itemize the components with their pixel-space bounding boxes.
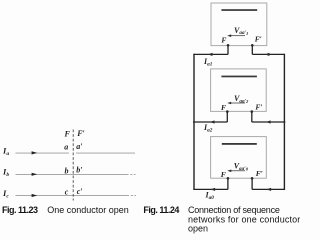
arrow row3 right	[267, 188, 272, 191]
terminal dot F' U0	[251, 177, 254, 180]
arrow Ia0	[210, 188, 215, 191]
svg-text:open: open	[188, 223, 208, 233]
arrow row1 right	[265, 53, 270, 56]
svg-text:Ia: Ia	[2, 145, 9, 157]
svg-text:c: c	[65, 188, 69, 197]
svg-text:F′: F′	[76, 129, 85, 138]
reference bus bar in U1	[221, 9, 257, 11]
svg-text:Ib: Ib	[2, 167, 9, 179]
svg-text:Ia0: Ia0	[205, 191, 215, 202]
arrow current Ib	[32, 173, 38, 176]
wire phase b	[16, 173, 129, 175]
stub wire F' U2	[251, 112, 253, 122]
right bus wire	[283, 54, 285, 190]
svg-text:F: F	[64, 130, 71, 139]
terminal dot F U2	[226, 110, 229, 113]
arrow Vaa'1 polarity	[229, 35, 245, 37]
arrow current Ic	[32, 194, 38, 197]
svg-text:F′: F′	[256, 169, 263, 178]
svg-text:Ia1: Ia1	[203, 57, 213, 68]
arrow row2 right	[266, 120, 271, 123]
wire row2 left	[193, 121, 227, 123]
stub wire F' U0	[251, 178, 253, 189]
arrow Vaa'0 polarity	[229, 170, 245, 172]
stub wire F U0	[227, 178, 229, 189]
svg-text:Fig. 11.24: Fig. 11.24	[143, 205, 179, 215]
wire phase c	[16, 195, 130, 197]
terminal dot F' U2	[251, 110, 254, 113]
wire row1 left	[193, 53, 228, 55]
svg-text:Vaa′0: Vaa′0	[234, 162, 249, 172]
terminal dot F' U1	[251, 44, 254, 47]
svg-text:F: F	[221, 36, 226, 45]
arrow Ia1	[208, 53, 213, 56]
junction left bus row2	[193, 121, 195, 123]
svg-text:Vaa′1: Vaa′1	[234, 26, 248, 36]
arrow current Ia	[32, 151, 38, 154]
wire row1 right	[252, 53, 285, 55]
stub wire F U2	[226, 112, 228, 122]
terminal dot F U0	[227, 177, 230, 180]
svg-text:a: a	[64, 142, 68, 151]
arrow Vaa'2 polarity	[229, 102, 245, 104]
sequence network box U0 (zero)	[211, 137, 267, 179]
svg-text:c′: c′	[77, 187, 83, 196]
stub wire F U1	[227, 45, 229, 54]
svg-text:Fig. 11.23: Fig. 11.23	[2, 205, 38, 215]
wire row2 right	[252, 121, 285, 123]
svg-text:Ia2: Ia2	[203, 123, 213, 134]
svg-text:F: F	[221, 103, 226, 112]
svg-text:a′: a′	[76, 142, 82, 151]
wire row3 right	[252, 188, 285, 190]
svg-text:F: F	[221, 170, 226, 179]
wire phase a right segment	[76, 152, 135, 154]
arrow Ia2	[210, 120, 215, 123]
sequence network box U2 (negative)	[211, 69, 267, 112]
svg-text:Ic: Ic	[2, 188, 9, 200]
left bus wire	[193, 54, 195, 190]
terminal dot F U1	[227, 44, 230, 47]
junction right bus row2	[283, 121, 285, 123]
reference bus bar in U2	[221, 76, 257, 78]
reference bus bar in U0	[222, 143, 257, 145]
svg-text:One conductor open: One conductor open	[47, 205, 129, 215]
wire phase a left segment	[16, 152, 70, 154]
svg-text:b′: b′	[76, 166, 82, 175]
stub wire F' U1	[251, 45, 253, 54]
wire row3 left	[193, 188, 228, 190]
sequence network box U1 (positive)	[211, 3, 267, 46]
svg-text:b: b	[65, 166, 69, 175]
svg-text:F′: F′	[255, 102, 262, 111]
svg-text:F′: F′	[255, 35, 262, 44]
dashed fault line	[72, 130, 74, 201]
